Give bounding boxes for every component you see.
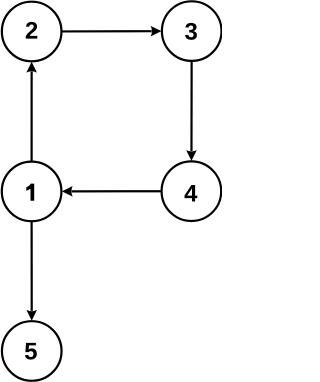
- arrowhead at node 2 (edge 1->2): [26, 62, 37, 73]
- node 4 label: [184, 185, 197, 201]
- node 1 label "1" (custom glyph path): [26, 184, 34, 201]
- node 5 circle: [2, 321, 62, 381]
- arrowhead at node 3 (edge 2->3): [151, 26, 162, 37]
- node 3 circle: [162, 1, 222, 61]
- wire edge 2->3 line: [62, 30, 151, 32]
- node 4 circle: [162, 161, 222, 221]
- wire edge 1->5 line: [31, 222, 33, 311]
- node 2 circle: [2, 2, 62, 62]
- wire edge 1->2 line: [31, 72, 33, 161]
- node 3 label: [185, 23, 197, 40]
- node 1 circle: [2, 162, 62, 222]
- wire edge 4->1 line: [72, 190, 161, 192]
- arrowhead at node 1 (edge 4->1): [62, 186, 73, 197]
- arrowhead at node 5 (edge 1->5): [26, 310, 37, 321]
- wire edge 3->4 line: [190, 62, 192, 151]
- arrowhead at node 4 (edge 3->4): [186, 150, 197, 161]
- node 5 label: [25, 343, 37, 360]
- node 2 label: [26, 22, 38, 39]
